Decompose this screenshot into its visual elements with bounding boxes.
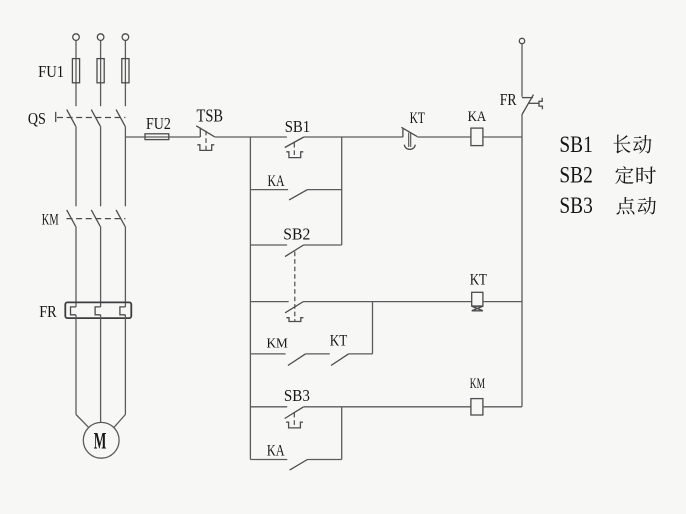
- legend text 点动: [616, 197, 634, 215]
- wire: SB3 to KM coil: [303, 406, 471, 408]
- wire: motor lead left diagonal: [76, 415, 89, 428]
- switch QS handle tick: [55, 112, 57, 122]
- svg-text:FU2: FU2: [146, 114, 171, 133]
- svg-text:SB1: SB1: [559, 132, 592, 157]
- wire: between KM and KT contacts: [305, 353, 329, 355]
- svg-text:KA: KA: [468, 109, 487, 125]
- left bus: [249, 137, 251, 460]
- relay contact KA (NO, jog bypass) blade: [290, 460, 308, 471]
- svg-text:KM: KM: [42, 212, 59, 229]
- wire: KT contact to junction: [349, 353, 373, 355]
- pushbutton TSB cap: [197, 145, 214, 151]
- wire: KT coil to right rail: [483, 301, 522, 303]
- relay coil KA: [471, 128, 483, 146]
- svg-text:FR: FR: [39, 302, 57, 321]
- svg-text:KT: KT: [410, 110, 425, 127]
- contactor coil KM: [471, 399, 483, 415]
- pushbutton SB1 cap: [286, 152, 303, 158]
- svg-text:KT: KT: [330, 332, 348, 349]
- wire: L1 QS to KM: [75, 126, 77, 206]
- svg-text:SB3: SB3: [284, 386, 310, 405]
- time relay coil KT: [472, 292, 483, 306]
- contactor KM linkage (dashed): [67, 218, 126, 220]
- legend text 长动: [614, 135, 631, 154]
- pushbutton SB3 cap: [286, 422, 303, 428]
- terminal L2: [97, 34, 104, 41]
- wire: SB2 lower to KT coil: [304, 301, 472, 303]
- pushbutton SB2 upper blade: [285, 245, 304, 257]
- terminal (control supply): [519, 38, 524, 43]
- KT delay rails: [408, 133, 410, 147]
- wire: L2 KM to FR: [100, 227, 102, 307]
- wire: terminal to FR contact: [521, 44, 523, 97]
- wire: KM/KT rung left: [250, 353, 285, 355]
- pushbutton TSB blade: [196, 126, 214, 137]
- wire: branch L3 to FU2: [125, 136, 200, 138]
- legend text 定时: [615, 166, 633, 184]
- KT delay arc: [404, 145, 415, 150]
- pushbutton TSB (NC) tick: [199, 128, 201, 138]
- wire: phase L2 terminal lead: [100, 40, 102, 106]
- KT coil delay symbol: [472, 306, 483, 311]
- svg-text:QS: QS: [28, 109, 46, 128]
- wire: KA rung right: [308, 189, 342, 191]
- fuse FU2: [145, 134, 169, 140]
- svg-text:FU1: FU1: [38, 62, 64, 81]
- wire: SB2 rung left: [250, 244, 287, 246]
- wire: L3 FR to motor: [124, 315, 126, 415]
- wire: KA coil to right rail: [483, 136, 522, 138]
- svg-text:KM: KM: [267, 337, 289, 352]
- pushbutton SB3 actuator link (dashed): [293, 413, 295, 428]
- svg-text:FR: FR: [500, 90, 517, 109]
- wire: KT contact to KA coil: [417, 136, 471, 138]
- wire: KA bottom rung left: [250, 459, 287, 461]
- wire: KA rung left: [250, 189, 288, 191]
- contactor aux contact KM (NO) blade: [288, 354, 306, 366]
- svg-text:KM: KM: [470, 376, 485, 392]
- svg-text:M: M: [94, 429, 107, 454]
- FR trip paddle: [539, 98, 542, 110]
- pushbutton SB2 lower blade: [285, 302, 303, 313]
- wire: junction drop (KM-KT rung to KT coil rung): [372, 302, 374, 354]
- FR trip connector: [528, 102, 539, 104]
- switch QS blades: [67, 110, 76, 127]
- wire: SB1 to KT contact: [304, 136, 403, 138]
- fuse FU1 (three cartridges): [72, 59, 79, 83]
- wire: KT coil rung left: [250, 301, 288, 303]
- time relay KT NC delayed contact: tick: [402, 129, 404, 138]
- right rail: [521, 115, 523, 407]
- svg-text:SB1: SB1: [285, 117, 311, 136]
- wire: phase L1 terminal lead: [75, 40, 77, 106]
- thermal relay FR box: [65, 302, 131, 318]
- wire: KM coil to right rail: [483, 406, 522, 408]
- svg-text:SB2: SB2: [283, 225, 310, 244]
- sub bus (SB1 parallel): [341, 137, 343, 245]
- wire: KA bottom rung right: [307, 459, 341, 461]
- switch QS linkage (dashed): [57, 117, 125, 119]
- pushbutton SB2 cap: [286, 318, 303, 322]
- wire: L3 KM to FR: [124, 227, 126, 307]
- pushbutton SB3 (NO) blade: [285, 407, 304, 419]
- wire: L2 QS to KM: [100, 126, 102, 206]
- contactor KM main blades: [67, 210, 76, 227]
- wire: TSB to SB1: [215, 136, 287, 138]
- pushbutton SB1 (NO) blade: [285, 137, 304, 148]
- FR contact blade: [522, 95, 534, 115]
- FR heater elements: [71, 307, 77, 315]
- svg-text:KA: KA: [267, 442, 285, 459]
- svg-text:TSB: TSB: [197, 105, 224, 125]
- wire: phase L3 terminal lead: [124, 40, 126, 106]
- wire: L3 QS to KM: [124, 126, 126, 206]
- pushbutton SB2 actuator link (dashed): [294, 252, 296, 322]
- wire: L2 FR to motor: [100, 315, 102, 423]
- KT contact blade: [401, 127, 417, 136]
- terminal L1: [73, 34, 80, 41]
- time relay instant contact KT (NO) blade: [331, 354, 349, 366]
- wire: SB3 rung left: [250, 406, 287, 408]
- sub bus (SB3 parallel): [341, 407, 343, 460]
- thermal contact FR (NC): tick: [522, 97, 533, 99]
- svg-text:SB3: SB3: [559, 193, 592, 218]
- wire: L1 FR to motor: [75, 315, 77, 415]
- terminal L3: [122, 34, 129, 41]
- pushbutton SB1 actuator link (dashed): [293, 143, 295, 158]
- relay contact KA (NO) blade: [289, 190, 307, 200]
- wire: motor lead right diagonal: [114, 415, 126, 428]
- svg-text:KT: KT: [470, 272, 487, 289]
- wire: L1 KM to FR: [75, 227, 77, 307]
- wire: SB2 rung right: [304, 244, 342, 246]
- pushbutton TSB actuator link (dashed): [205, 131, 207, 150]
- motor M: [83, 422, 119, 458]
- svg-text:KA: KA: [268, 173, 285, 190]
- svg-text:SB2: SB2: [559, 163, 592, 188]
